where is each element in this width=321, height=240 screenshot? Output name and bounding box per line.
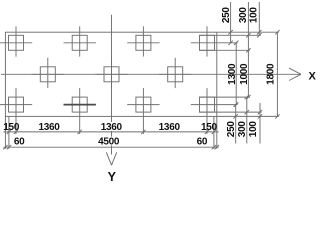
dim chain line 150,1360,1360,1360,150 [3, 131, 218, 133]
svg-text:250: 250 [226, 121, 237, 138]
svg-text:1360: 1360 [159, 122, 181, 133]
extension: x=60 down [8, 116, 10, 148]
svg-text:1360: 1360 [101, 122, 123, 133]
pile P6 vertical centerline [111, 58, 113, 88]
svg-text:1000: 1000 [239, 63, 250, 85]
svg-text:1300: 1300 [227, 63, 238, 85]
svg-text:1800: 1800 [265, 63, 276, 85]
Y axis line [111, 15, 113, 155]
pile P10 vertical centerline [142, 88, 144, 134]
dim chain line 60,4500,60 [3, 146, 218, 148]
pile P5 (middle row) 300x300 [40, 67, 55, 82]
dim line 1300 right [235, 43, 237, 105]
pile P7 horizontal centerline [159, 73, 191, 75]
svg-text:300: 300 [237, 121, 248, 138]
pile P4 horizontal centerline [191, 42, 238, 44]
X axis arrowhead [289, 68, 301, 80]
extension: cap right edge down [216, 116, 218, 148]
pile P4 vertical centerline [206, 26, 208, 56]
pile P2 horizontal centerline [64, 42, 96, 44]
pile P9 horizontal centerline [64, 104, 96, 106]
svg-text:60: 60 [14, 136, 25, 147]
svg-text:60: 60 [197, 136, 208, 147]
pile P9 (bottom row) 300x300 [72, 97, 87, 112]
pile P5 vertical centerline [47, 58, 49, 88]
extension: cap top edge extended right [217, 31, 279, 33]
svg-text:150: 150 [3, 122, 20, 133]
pile P11 horizontal centerline [191, 104, 238, 106]
pile P3 horizontal centerline [127, 42, 159, 44]
svg-text:4500: 4500 [98, 136, 120, 147]
extension: top pile bottom face right [199, 49, 250, 51]
pile cap outline 4500x1800 [5, 32, 216, 116]
extension: x=4440 down [213, 116, 215, 148]
dim line 1800 far right [276, 32, 278, 116]
svg-text:100: 100 [248, 121, 259, 138]
extension: bottom pile bottom face right [199, 111, 261, 113]
pile P9 vertical centerline [79, 88, 81, 134]
pile P1 (top row) 300x300 [9, 35, 24, 50]
dim line 300 bottom right [246, 97, 248, 143]
pile P3 vertical centerline [142, 26, 144, 56]
svg-text:1360: 1360 [38, 122, 60, 133]
svg-text:X: X [309, 71, 317, 83]
extension: bottom pile top face right [199, 96, 250, 98]
dim line 250 bottom right [235, 105, 237, 144]
pile P11 vertical centerline [206, 88, 208, 134]
pile P7 (middle row) 300x300 [168, 67, 183, 82]
pile P11 (bottom row) 300x300 [200, 97, 215, 112]
svg-text:300: 300 [238, 7, 249, 24]
pile P10 horizontal centerline [127, 104, 159, 106]
pile P1 horizontal centerline [0, 42, 32, 44]
X axis line [1, 73, 301, 75]
pile P6 horizontal centerline [95, 73, 127, 75]
pile P8 vertical centerline [15, 88, 17, 134]
pile P8 horizontal centerline [0, 104, 32, 106]
svg-text:100: 100 [249, 7, 260, 24]
dim text 4500 [97, 137, 120, 146]
pile P10 (bottom row) 300x300 [136, 97, 151, 112]
dim text 1360 (2nd) [100, 122, 123, 131]
svg-text:Y: Y [108, 170, 117, 183]
pile P2 (top row) 300x300 [72, 35, 87, 50]
pile P7 vertical centerline [174, 58, 176, 88]
pile P6 (middle row) 300x300 [104, 67, 119, 82]
pile P5 horizontal centerline [32, 73, 64, 75]
pile P2 vertical centerline [79, 26, 81, 56]
pile P1 vertical centerline [15, 26, 17, 56]
svg-text:150: 150 [201, 122, 218, 133]
dim line 100 bottom right [259, 103, 261, 144]
Y axis arrowhead [106, 152, 116, 165]
pile P8 (bottom row) 300x300 [9, 97, 24, 112]
dim line 300+1000 right [247, 2, 249, 97]
extension: cap left edge down [4, 116, 6, 148]
pile P3 (top row) 300x300 [136, 35, 151, 50]
extension: cap bottom edge extended right [217, 115, 279, 117]
dim line 250 top right [230, 2, 232, 43]
extension: top pile top face right [199, 34, 260, 36]
svg-text:250: 250 [221, 7, 232, 24]
pile P4 (top row) 300x300 [200, 35, 215, 50]
dim line 100 top right [258, 2, 260, 35]
